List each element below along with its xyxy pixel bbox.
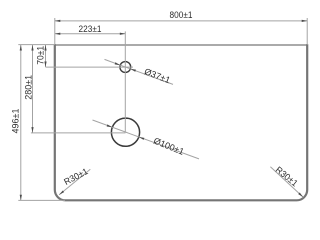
leader R30±1 bottom-right <box>270 167 303 197</box>
svg-text:R30±1: R30±1 <box>274 164 300 188</box>
centerline horizontal small hole <box>46 66 134 68</box>
dimension 800±1 line <box>55 20 307 22</box>
svg-text:Ø100±1: Ø100±1 <box>152 136 185 157</box>
svg-text:280±1: 280±1 <box>23 75 33 100</box>
extension line right edge up <box>306 18 308 44</box>
dimension 70±1 line <box>44 45 46 67</box>
leader Ø37±1 <box>105 59 174 84</box>
svg-text:223±1: 223±1 <box>79 24 102 34</box>
extension line top-left horizontal <box>18 44 55 46</box>
extension line left edge up <box>54 18 56 44</box>
dimension 280±1 line <box>31 45 33 133</box>
leader Ø100±1 <box>93 120 200 159</box>
centerline vertical through holes <box>124 31 126 132</box>
dimension 496±1 line <box>20 45 22 200</box>
leader R30±1 bottom-left <box>59 169 90 195</box>
svg-text:R30±1: R30±1 <box>62 166 89 187</box>
svg-text:496±1: 496±1 <box>10 109 20 134</box>
svg-text:800±1: 800±1 <box>170 10 193 20</box>
centerline horizontal large hole <box>31 132 126 134</box>
panel outline top edge <box>55 44 307 46</box>
dimension 223±1 line <box>55 33 126 35</box>
panel outline sides and bottom <box>55 44 307 200</box>
svg-text:70±1: 70±1 <box>35 46 45 65</box>
hole large Ø100 <box>111 118 139 146</box>
extension line bottom-left horizontal <box>18 199 65 201</box>
hole small Ø37 <box>120 62 131 73</box>
svg-text:Ø37±1: Ø37±1 <box>143 66 172 85</box>
